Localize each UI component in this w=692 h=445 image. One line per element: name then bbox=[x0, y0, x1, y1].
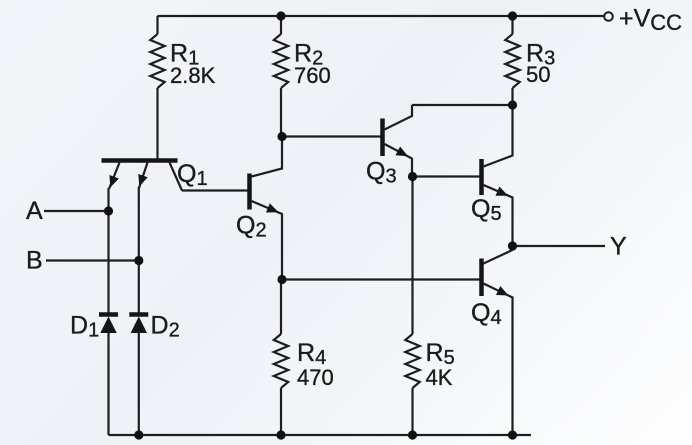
Vcc terminal circle bbox=[604, 12, 613, 21]
svg-text:+VCC: +VCC bbox=[619, 5, 682, 36]
diode D2 bbox=[129, 312, 179, 342]
wire: Q3 collector to R3 node bbox=[412, 104, 513, 106]
svg-text:A: A bbox=[26, 197, 43, 225]
node: R2 / Q2 collector / Q3 base bbox=[277, 132, 286, 141]
node: input A junction bbox=[104, 206, 113, 215]
node: R4 / ground rail bbox=[276, 430, 285, 439]
svg-text:D1: D1 bbox=[70, 312, 99, 342]
wire: D2 anode to ground rail bbox=[138, 333, 140, 435]
resistor R3 50 bbox=[505, 16, 555, 105]
wire: top Vcc rail bbox=[158, 15, 605, 17]
node: R5 / ground rail bbox=[408, 430, 417, 439]
node: Q3 emitter / Q5 base / R5 bbox=[408, 172, 417, 181]
svg-text:Q1: Q1 bbox=[177, 160, 208, 190]
node: Q2 emitter / R4 / Q4 base bbox=[277, 275, 286, 284]
node: top rail / R2 bbox=[276, 11, 285, 20]
wire: bottom ground rail bbox=[109, 434, 532, 436]
node: R3 bottom / Q3 collector / Q5 collector bbox=[508, 100, 517, 109]
transistor Q1 (multi-emitter input) bbox=[102, 160, 208, 191]
wire: Q1 collector to Q2 base bbox=[182, 189, 248, 191]
wire: emitter-1 branch down to D1 bbox=[107, 188, 109, 315]
svg-text:Q5: Q5 bbox=[471, 195, 502, 225]
transistor Q4 bbox=[471, 250, 513, 435]
resistor R4 470 bbox=[274, 280, 334, 435]
resistor R1 2.8K bbox=[150, 16, 215, 159]
node: D2 / ground rail bbox=[134, 430, 143, 439]
transistor Q2 bbox=[236, 137, 282, 280]
svg-text:2.8K: 2.8K bbox=[170, 63, 216, 88]
resistor R5 4K bbox=[405, 176, 454, 435]
wire: R2 node to Q3 base bbox=[282, 135, 381, 137]
node: Q4 emitter / ground rail bbox=[508, 430, 517, 439]
svg-text:760: 760 bbox=[294, 63, 331, 88]
svg-text:50: 50 bbox=[526, 62, 550, 87]
transistor Q3 bbox=[366, 105, 412, 188]
wire: emitter-2 branch down to D2 bbox=[138, 187, 140, 315]
svg-text:470: 470 bbox=[297, 365, 334, 390]
node: Y output bbox=[508, 241, 517, 250]
svg-text:Q3: Q3 bbox=[366, 158, 397, 188]
svg-text:Y: Y bbox=[610, 233, 627, 261]
wire: input A bbox=[44, 210, 109, 212]
wire: Q3 emitter node to Q5 base bbox=[413, 175, 480, 177]
node: input B junction bbox=[134, 256, 143, 265]
resistor R2 760 bbox=[274, 16, 331, 137]
wire: input B bbox=[46, 259, 139, 261]
transistor Q5 bbox=[471, 105, 513, 250]
diode D1 bbox=[70, 312, 118, 342]
wire: Y output bbox=[513, 245, 606, 247]
node: top rail / R3 bbox=[508, 11, 517, 20]
svg-text:4K: 4K bbox=[426, 365, 453, 390]
svg-text:Q2: Q2 bbox=[236, 212, 267, 242]
svg-text:B: B bbox=[26, 247, 43, 275]
svg-text:D2: D2 bbox=[151, 312, 180, 342]
wire: D1 anode to ground rail bbox=[107, 333, 109, 435]
svg-text:Q4: Q4 bbox=[471, 299, 502, 329]
wire: Q2 emitter node to Q4 base bbox=[282, 278, 480, 280]
